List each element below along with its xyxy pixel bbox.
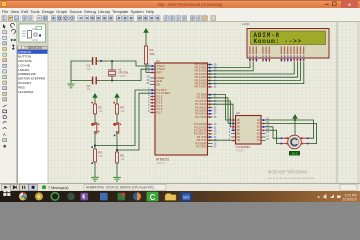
ic U1 AT89C51 microcontroller: [147, 59, 217, 165]
wire P0.5 to LCD D6: [208, 62, 301, 80]
svg-text:10k: 10k: [120, 109, 125, 113]
toolbar: [0, 14, 360, 22]
svg-text:LCD-HD: LCD-HD: [18, 63, 30, 67]
minimap panel: [17, 22, 48, 46]
wire P2.2 to ULN 3B: [208, 101, 232, 127]
svg-text:File View Edit Tools Desig: File View Edit Tools Design Graph Source…: [2, 9, 154, 14]
taskbar icons: [3, 189, 192, 202]
right pin numbers: [214, 63, 217, 148]
right pin names: [194, 62, 207, 148]
svg-text:P1.7: P1.7: [157, 110, 163, 114]
wire XTAL2 rail: [71, 69, 155, 80]
devices list: [18, 50, 48, 54]
svg-text:U1: U1: [156, 59, 160, 63]
svg-text:ANIMATING: 00:00:01.950000 (CP: ANIMATING: 00:00:01.950000 (CPU load 4%): [86, 186, 154, 190]
svg-text:C: C: [150, 193, 156, 202]
wire P2.1 to ULN 2B: [208, 98, 232, 124]
wire R5 to gnd: [116, 163, 118, 177]
left pin names: [157, 64, 171, 114]
tray: [317, 193, 357, 201]
svg-text:R4: R4: [120, 105, 124, 109]
minimap: [19, 24, 46, 42]
wire R4 to button2: [116, 114, 118, 123]
svg-text:ULN2003A: ULN2003A: [236, 145, 251, 149]
node tap2: [116, 149, 118, 151]
svg-text:36.0: 36.0: [292, 151, 298, 155]
wire R3 to gnd: [94, 162, 96, 177]
wire R1 to RST: [146, 64, 155, 72]
wire ULN 1C to motor right-top: [266, 120, 314, 138]
button 2: [113, 123, 121, 137]
svg-text:<TEXT>: <TEXT>: [156, 161, 166, 165]
svg-text:×: ×: [348, 2, 352, 8]
svg-text:RST: RST: [157, 70, 163, 74]
power terminal VCC (motor): [293, 115, 297, 120]
capacitor C2: [87, 77, 97, 91]
svg-text:P0.7/AD7: P0.7/AD7: [195, 85, 207, 89]
resistor R1: [144, 46, 154, 64]
ground (button 2): [114, 177, 121, 181]
devices list: [17, 50, 48, 184]
resistor R2: [91, 102, 103, 114]
svg-text:30p: 30p: [87, 87, 92, 91]
svg-text:ISIS: ISIS: [183, 196, 190, 200]
left state squares: [151, 65, 153, 113]
svg-text:PICKFET: PICKFET: [18, 81, 31, 85]
devices header: [17, 46, 48, 50]
capacitor C1: [87, 58, 97, 71]
wire P0.3 to LCD D4: [208, 62, 295, 74]
wire P2.0 to ULN 1B: [208, 95, 232, 120]
svg-text:10k: 10k: [98, 109, 103, 113]
taskbar: [0, 191, 360, 202]
left toolbar column 1 icons: [3, 24, 7, 148]
motor M1 stepper: [281, 135, 309, 155]
crystal X1: [108, 61, 129, 81]
svg-text:7C: 7C: [257, 139, 260, 142]
svg-text:<TEXT>: <TEXT>: [118, 75, 128, 78]
LCD pin name labels: [249, 47, 304, 55]
left toolbar column 2 icons: [11, 23, 16, 49]
wire P2.3 to ULN 4B: [208, 104, 236, 130]
power terminal VCC (reset): [144, 29, 148, 36]
app icon: [2, 2, 7, 7]
svg-text:AT89C51: AT89C51: [156, 158, 169, 162]
left pin numbers: [147, 64, 150, 113]
title bar: [0, 0, 360, 8]
svg-text:10k: 10k: [150, 52, 155, 56]
LCD pin state squares: [249, 59, 305, 61]
right state squares: [209, 64, 211, 142]
svg-text:P3.7/RD: P3.7/RD: [196, 145, 207, 149]
window buttons: [325, 4, 329, 5]
wire P0.2 to LCD E: [208, 62, 254, 71]
lcd LCD1 LM016L: [242, 22, 329, 62]
node VCC/1C junction: [294, 119, 296, 121]
wire XTAL1 rail: [71, 61, 155, 66]
menu bar: [0, 8, 360, 14]
wire to R2: [94, 99, 96, 104]
ground (crystal): [68, 81, 75, 88]
ULN state squares: [232, 119, 264, 141]
wire left vertical: [70, 61, 72, 81]
svg-text:P2.7/A15: P2.7/A15: [195, 115, 207, 119]
svg-text:MINRES10K: MINRES10K: [18, 72, 36, 76]
svg-text:R3: R3: [98, 150, 102, 154]
left mode toolbar: [0, 22, 17, 183]
svg-text:MOTOR-STEPPER: MOTOR-STEPPER: [18, 77, 46, 81]
devices header: [18, 46, 21, 49]
svg-text:30p: 30p: [87, 67, 92, 71]
status bar: [0, 183, 360, 191]
svg-text:LCD1: LCD1: [242, 22, 250, 26]
svg-text:CRYSTAL: CRYSTAL: [18, 59, 32, 63]
close button: [341, 0, 358, 8]
panel/canvas divider: [47, 22, 49, 183]
svg-text:ULN2003A: ULN2003A: [18, 90, 34, 94]
wire button1 to R3: [94, 133, 96, 149]
sheet border: [336, 22, 338, 183]
wire VCC to R1: [145, 36, 147, 46]
svg-text:EA: EA: [157, 82, 161, 86]
left pin stubs: [150, 66, 155, 112]
svg-text:Konum: -->>: Konum: -->>: [254, 38, 302, 45]
wire button2 to R5: [116, 133, 118, 152]
svg-text:7B: 7B: [237, 139, 240, 142]
node junctions: [111, 60, 113, 62]
svg-text:Go to Settings to activate Win: Go to Settings to activate Windows.: [268, 176, 316, 180]
wire P0.4 to LCD D5: [208, 62, 298, 77]
svg-text:LM016L: LM016L: [18, 68, 29, 72]
svg-text:A: A: [3, 132, 6, 137]
wire tap2 to P1.1: [117, 93, 155, 150]
wire ULN 4C to motor left-bottom: [266, 130, 283, 143]
svg-text:R2: R2: [98, 105, 102, 109]
wire P0.1 to LCD RS: [208, 62, 251, 68]
node tap1: [94, 145, 96, 147]
svg-text:dsp - ISIS Professional (Anima: dsp - ISIS Professional (Animating): [157, 2, 223, 7]
svg-text:RES: RES: [18, 85, 24, 89]
status bar: vcr buttons: [2, 184, 358, 190]
svg-text:Activate Windows: Activate Windows: [268, 170, 308, 176]
svg-text:U2: U2: [236, 111, 240, 115]
svg-text:10k: 10k: [120, 157, 125, 161]
power terminal VCC (button 2): [115, 94, 119, 99]
resistor R5: [116, 152, 126, 163]
svg-text:10k: 10k: [98, 154, 103, 158]
wire P3.5 to ULN 7B: [208, 139, 232, 141]
motor rpm display: [289, 151, 299, 155]
svg-text:7 Message(s): 7 Message(s): [48, 186, 69, 190]
resistor R4: [113, 102, 125, 114]
wire tap1 to P1.0: [95, 90, 155, 146]
power terminal VCC (button 1): [93, 94, 97, 99]
wire VCC to motor top: [294, 120, 296, 135]
LCD pins VSS VDD VEE RS RW E D0-D7: [250, 58, 304, 62]
wire ULN 2C to motor right-bottom: [266, 123, 317, 143]
right pin stubs: [208, 64, 213, 146]
wire ULN 3C to motor left-top: [266, 127, 283, 138]
ic U2 ULN2003A driver: [229, 111, 270, 152]
toolbar icons: [2, 16, 216, 21]
button 1: [91, 123, 99, 134]
wire R2 to button1: [94, 114, 96, 123]
ground (button 1): [92, 177, 99, 181]
canvas: [48, 22, 360, 183]
wire to R4: [116, 99, 118, 104]
svg-text:2/19/2019: 2/19/2019: [342, 198, 356, 202]
svg-text:AT89C51: AT89C51: [18, 50, 31, 54]
svg-text:BUTTON: BUTTON: [18, 55, 31, 59]
wire P0.6 to LCD D7: [208, 62, 304, 84]
resistor R3: [91, 146, 103, 164]
svg-text:R5: R5: [120, 153, 124, 157]
svg-text:<TEXT>: <TEXT>: [236, 149, 246, 153]
